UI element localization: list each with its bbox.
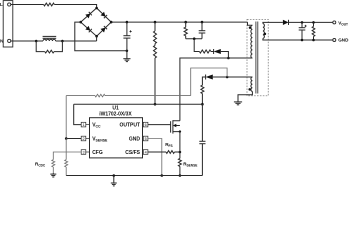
diode D4 (bridge bottom-right) xyxy=(101,28,106,33)
resistor R10 (preload) xyxy=(312,26,315,36)
wire L input to fuse xyxy=(11,4,44,6)
wire pin4 to RFS xyxy=(148,151,166,153)
wire pin3 CFG xyxy=(53,152,81,160)
diode D2 (bridge top-right) xyxy=(101,12,106,17)
transformer T1 shield box xyxy=(247,19,268,96)
auxiliary polarity dot xyxy=(248,88,251,91)
wire clamp R bottom xyxy=(185,36,187,39)
resistor R8 (VSENSE divider upper) xyxy=(95,94,105,97)
wire secondary bottom / output return xyxy=(263,38,333,40)
svg-text:L: L xyxy=(0,2,3,7)
junction CS source node xyxy=(179,151,182,154)
svg-text:1: 1 xyxy=(82,123,84,127)
wire RCDC to ground xyxy=(52,167,54,174)
transformer auxiliary winding xyxy=(251,77,253,91)
terminal GND output xyxy=(333,39,336,42)
pin 6 box xyxy=(143,122,148,127)
svg-text:6: 6 xyxy=(145,123,147,127)
pin 2 box xyxy=(81,136,89,141)
transformer secondary winding xyxy=(263,24,265,39)
wire choke bypass left xyxy=(36,41,45,52)
junction VSENSE pin2 xyxy=(65,137,68,140)
junction output cap xyxy=(301,21,304,24)
resistor R6 (clamp series) xyxy=(199,50,211,53)
junction output cap return xyxy=(301,39,304,42)
diode D1 (bridge top-left) xyxy=(85,14,90,19)
wire OUTPUT to gate xyxy=(148,124,171,126)
ground RCDC xyxy=(50,173,56,177)
svg-text:2: 2 xyxy=(82,137,84,141)
wire preload top xyxy=(313,22,315,26)
wire clamp diode to drain node xyxy=(221,52,229,59)
junction choke right xyxy=(61,40,64,43)
wire RSENSE to bus xyxy=(179,166,181,175)
wire primary bottom to drain xyxy=(180,58,253,121)
junction rail clamp C xyxy=(201,21,204,24)
wire VSENSE divider lower lead xyxy=(65,139,67,160)
capacitor C3 (VCC) xyxy=(199,104,205,175)
svg-text:CS/FS: CS/FS xyxy=(125,150,140,156)
primary polarity dot xyxy=(249,26,252,29)
transformer primary winding xyxy=(251,25,253,58)
wire VCC to pin1 xyxy=(74,104,82,124)
ground auxiliary xyxy=(234,95,242,105)
wire bridge bottom stub xyxy=(96,36,98,41)
terminal VOUT xyxy=(333,21,336,24)
junction choke left xyxy=(35,40,38,43)
wire VSENSE down to pin2 xyxy=(65,96,67,139)
junction startup R VCC line xyxy=(154,103,157,106)
wire DC- bus xyxy=(75,22,127,51)
resistor RFS xyxy=(166,151,175,154)
svg-text:5: 5 xyxy=(145,137,147,141)
svg-text:OUTPUT: OUTPUT xyxy=(119,123,140,129)
junction preload return xyxy=(312,39,315,42)
wire pin5 GND to bus xyxy=(148,139,162,176)
wire secondary top xyxy=(263,22,283,23)
wire aux return xyxy=(238,91,252,101)
junction rail bulk cap xyxy=(126,21,129,24)
pin 4 box xyxy=(143,150,148,155)
svg-text:4: 4 xyxy=(145,150,147,154)
AC input connector J1 xyxy=(3,1,13,47)
bridge diamond wires xyxy=(81,8,112,36)
wire choke bypass right xyxy=(54,41,62,52)
inductor L1 (filter choke) xyxy=(36,36,62,41)
junction bus ground xyxy=(113,174,116,177)
wire R to VCC node xyxy=(201,94,203,105)
diode D5 (clamp) xyxy=(214,49,221,54)
pin 5 box xyxy=(143,136,148,141)
diode D7 (output rectifier) xyxy=(283,20,289,25)
wire choke to bridge bottom xyxy=(62,40,96,42)
bridge bottom node xyxy=(95,35,98,38)
svg-text:CFG: CFG xyxy=(92,150,103,156)
wire fuse to bridge top xyxy=(54,5,96,9)
wire N input to choke xyxy=(11,40,36,42)
junction preload R xyxy=(312,21,315,24)
wire startup R to VCC node xyxy=(154,58,156,104)
ground primary bus xyxy=(111,176,117,186)
wire clamp to series R xyxy=(194,39,199,52)
wire aux diode to R xyxy=(202,77,205,85)
secondary polarity dot xyxy=(264,33,267,36)
resistor R4 (startup lower) xyxy=(154,45,157,58)
wire primary ground bus xyxy=(66,175,202,177)
junction rail clamp R xyxy=(184,21,187,24)
svg-text:GND: GND xyxy=(338,38,349,43)
svg-text:U1: U1 xyxy=(112,105,119,111)
resistor R5 (clamp) xyxy=(184,27,187,36)
junction GND bus xyxy=(161,174,164,177)
wire diode to VOUT xyxy=(289,21,333,23)
wire divider to ground bus xyxy=(65,167,67,176)
resistor RSENSE xyxy=(178,158,181,166)
transistor Q1 (MOSFET) xyxy=(171,120,180,133)
capacitor C1 (bulk, polarized) xyxy=(123,22,130,51)
ground primary DC- xyxy=(123,51,130,62)
wire VCC line xyxy=(74,103,203,105)
wire clamp bottom join xyxy=(186,38,202,40)
svg-text:iW1702-0X/3X: iW1702-0X/3X xyxy=(99,112,132,118)
resistor R7 (VCC series) xyxy=(201,85,204,93)
wire rail to startup R xyxy=(154,22,156,31)
bridge left node xyxy=(79,21,82,24)
diode D6 (VCC rectifier) xyxy=(206,75,213,80)
pin 1 box xyxy=(81,122,89,127)
bridge top node xyxy=(95,7,98,10)
junction VCC node xyxy=(201,103,204,106)
resistor R9 (VSENSE divider lower) xyxy=(65,160,68,167)
wire VSENSE pickup xyxy=(191,68,227,96)
wire rail into primary xyxy=(248,22,253,25)
wire aux top line xyxy=(227,76,252,78)
fuse resistor RF1 xyxy=(44,3,55,6)
wire preload bottom xyxy=(313,36,315,40)
wire VSENSE line left xyxy=(66,95,95,97)
resistor RCDC xyxy=(52,160,55,167)
transformer core xyxy=(256,22,258,94)
capacitor C4 (output, polarized) xyxy=(299,22,306,40)
wire source to RSENSE xyxy=(179,132,181,159)
wire RFS to source node xyxy=(175,151,180,153)
op IC U1 iW1702 box xyxy=(90,118,143,158)
capacitor C2 (clamp) xyxy=(199,22,206,39)
wire aux to diode xyxy=(213,76,227,78)
wire startup mid xyxy=(154,44,156,46)
wire clamp R to diode xyxy=(211,51,214,53)
svg-text:3: 3 xyxy=(82,150,84,154)
resistor R3 (startup upper) xyxy=(154,31,157,44)
wire pin2 stub xyxy=(66,138,81,140)
junction RSENSE bus xyxy=(179,174,182,177)
bridge right node xyxy=(110,21,113,24)
svg-text:GND: GND xyxy=(129,137,141,143)
wire clamp R top xyxy=(185,22,187,27)
junction aux vsense tap xyxy=(226,76,229,79)
junction bulk cap negative xyxy=(126,50,129,53)
junction clamp RC xyxy=(193,37,196,40)
junction MOSFET source-body xyxy=(179,130,181,132)
junction rail startup R xyxy=(154,21,157,24)
wire VSENSE line right xyxy=(105,95,191,97)
resistor R2 (choke damping) xyxy=(45,50,54,53)
diode D3 (bridge bottom-left) xyxy=(85,26,90,31)
junction clamp drain node xyxy=(227,57,230,60)
pin 3 box xyxy=(81,150,89,155)
wire DC+ rail xyxy=(111,21,247,23)
